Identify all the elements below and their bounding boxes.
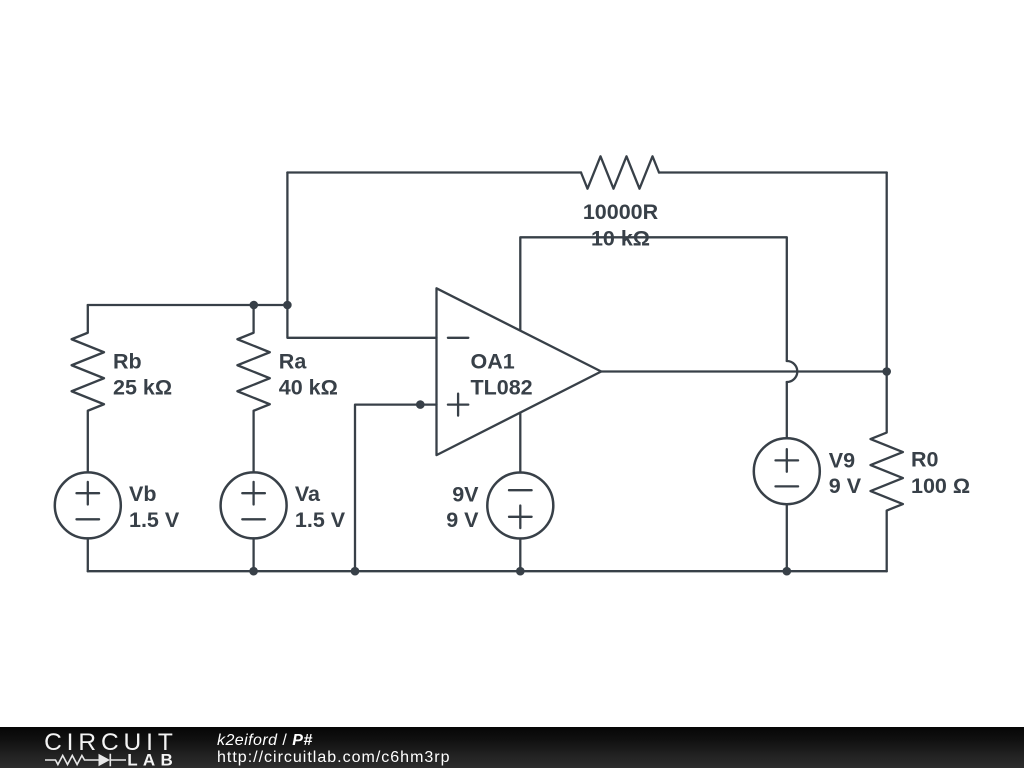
- wire non-inverting input: [355, 405, 437, 572]
- svg-text:1.5 V: 1.5 V: [295, 508, 346, 532]
- logo resistor zigzag: [45, 756, 99, 765]
- junction dot feedback node: [283, 301, 292, 310]
- svg-text:Ra: Ra: [279, 350, 308, 374]
- credit line 2: [217, 749, 451, 767]
- op-amp OA1 triangle: [437, 288, 602, 455]
- svg-text:10000R: 10000R: [583, 200, 659, 224]
- source Va plus sign: [242, 482, 265, 505]
- wire 9V bottom lead: [519, 539, 521, 572]
- svg-text:1.5 V: 1.5 V: [129, 508, 180, 532]
- wire inverting input: [287, 305, 436, 338]
- wire output: [601, 370, 887, 372]
- resistor R0 100 ohm zigzag with leads: [871, 372, 903, 572]
- wire Vb bottom lead: [87, 538, 89, 571]
- svg-text:R0: R0: [911, 448, 939, 472]
- svg-text:10 kΩ: 10 kΩ: [591, 226, 650, 250]
- wire bottom ground rail: [88, 570, 887, 572]
- svg-text:9 V: 9 V: [446, 508, 479, 532]
- source Vb minus sign: [77, 518, 100, 520]
- wire V9 top lead: [786, 382, 788, 438]
- logo diode triangle: [99, 754, 111, 766]
- wire V+ rail 10k line: [520, 237, 787, 361]
- svg-text:V9: V9: [829, 448, 855, 472]
- junction dot Ra top: [250, 301, 259, 310]
- junction dot V9 ground: [783, 567, 792, 576]
- source V9 plus sign: [776, 449, 799, 472]
- voltage source 9V circle (negative up): [487, 473, 553, 539]
- source Vb plus sign: [77, 482, 100, 505]
- source 9V minus sign: [509, 489, 532, 491]
- voltage source Va circle: [221, 472, 287, 538]
- source V9 minus sign: [776, 485, 799, 487]
- credit line 1: [217, 732, 313, 750]
- junction dot plus input: [416, 400, 425, 409]
- svg-text:TL082: TL082: [471, 375, 533, 399]
- resistor Rb 25k zigzag with leads: [72, 305, 104, 472]
- svg-text:9 V: 9 V: [829, 474, 862, 498]
- svg-text:Va: Va: [295, 482, 321, 506]
- voltage source Vb circle: [55, 472, 121, 538]
- resistor Rfb 10000R zigzag: [581, 156, 659, 188]
- svg-text:OA1: OA1: [471, 349, 515, 373]
- wire V- pin: [519, 413, 521, 473]
- junction dot plus-wire ground: [351, 567, 360, 576]
- wire V9 bottom lead: [786, 504, 788, 571]
- junction dot 9V ground: [516, 567, 525, 576]
- wire feedback top left: [287, 171, 581, 173]
- svg-text:LAB: LAB: [127, 751, 173, 768]
- svg-text:9V: 9V: [452, 483, 479, 507]
- svg-text:100 Ω: 100 Ω: [911, 474, 970, 498]
- wire feedback vertical: [286, 173, 288, 306]
- wire Va bottom lead: [252, 538, 254, 571]
- junction dot output node: [882, 367, 891, 376]
- resistor Ra 40k zigzag with leads: [237, 305, 269, 472]
- svg-text:25 kΩ: 25 kΩ: [113, 376, 172, 400]
- wire feedback top right: [659, 171, 887, 173]
- wire top-left rail node A: [88, 304, 288, 306]
- op-amp plus input symbol: [448, 394, 468, 416]
- wire hop over output: [787, 361, 798, 382]
- wire right drop to output node: [886, 173, 888, 372]
- svg-text:40 kΩ: 40 kΩ: [279, 376, 338, 400]
- svg-text:Rb: Rb: [113, 350, 142, 374]
- source 9V plus sign: [509, 506, 532, 529]
- voltage source V9 circle (positive up): [754, 438, 820, 504]
- svg-text:Vb: Vb: [129, 482, 156, 506]
- footer bar: [0, 727, 1024, 768]
- op-amp minus input symbol: [448, 337, 468, 339]
- junction dot Va ground: [249, 567, 258, 576]
- logo diode cathode bar and wire: [110, 754, 126, 766]
- source Va minus sign: [242, 518, 265, 520]
